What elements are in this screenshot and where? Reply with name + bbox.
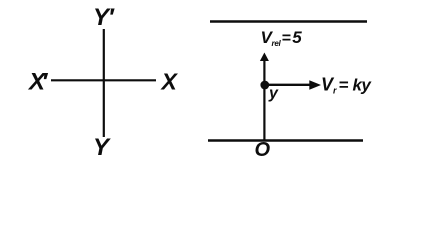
- svg-text:r: r: [333, 86, 337, 96]
- left diagram: horizontal axis X'X: [51, 79, 156, 81]
- svg-text:y: y: [268, 85, 279, 102]
- svg-text:=: =: [282, 30, 291, 47]
- right diagram: bottom boundary line: [208, 139, 363, 141]
- particle dot at height y: [260, 81, 269, 90]
- svg-text:X: X: [160, 69, 179, 95]
- svg-text:O: O: [255, 139, 271, 161]
- right diagram: top boundary line: [210, 20, 367, 22]
- svg-text:ky: ky: [353, 75, 373, 94]
- svg-text:=: =: [339, 75, 349, 94]
- horizontal arrow V_r shaft: [265, 84, 310, 86]
- right diagram: vertical line from O up through dot: [263, 57, 265, 140]
- right arrowhead of V_r arrow: [309, 80, 321, 90]
- svg-text:Y′: Y′: [93, 4, 115, 31]
- svg-text:5: 5: [292, 28, 302, 47]
- svg-text:Y: Y: [93, 134, 111, 161]
- up arrowhead of relative velocity arrow: [260, 53, 269, 62]
- svg-text:X′: X′: [27, 69, 49, 96]
- svg-text:rel: rel: [272, 39, 282, 48]
- left diagram: vertical axis Y'Y: [103, 29, 105, 137]
